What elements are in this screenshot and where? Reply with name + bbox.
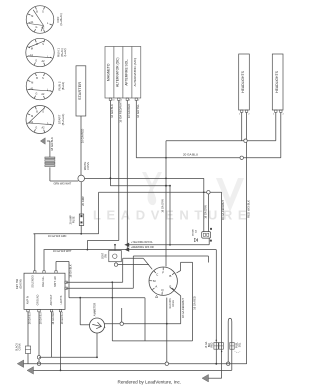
wire run y258 (123, 257, 144, 259)
dot crossing (112, 297, 114, 299)
wire headlight bus upper (166, 140, 276, 142)
decor (93, 172, 252, 223)
svg-text:(G+M+A1): (G+M+A1) (59, 13, 63, 25)
inline connectors right pair (214, 343, 218, 350)
svg-text:SOLENOID: SOLENOID (32, 275, 35, 288)
svg-text:16 GA W/3 WHT: 16 GA W/3 WHT (53, 250, 72, 253)
svg-text:B: B (169, 274, 171, 278)
wire drop x208 (207, 256, 209, 263)
box pins (109, 98, 111, 100)
ammeter needle (92, 322, 101, 328)
svg-text:2: 2 (283, 114, 284, 116)
wire riser x133 (132, 256, 134, 288)
svg-text:CONN: CONN (86, 162, 90, 170)
svg-text:20 AMP: 20 AMP (81, 196, 85, 206)
svg-text:RUN 2: RUN 2 (58, 81, 62, 90)
svg-text:1: 1 (273, 114, 274, 116)
wire headlight2 right (280, 112, 282, 157)
svg-text:LEADVENTURE: LEADVENTURE (93, 208, 252, 223)
wire riser x122 (122, 258, 124, 282)
svg-text:AMMETER: AMMETER (92, 303, 96, 316)
wire coil to fuse junction (49, 167, 51, 181)
wire box bottom 3 (51, 312, 53, 358)
svg-text:18 GA BLK: 18 GA BLK (40, 311, 43, 324)
wire 20 GA BLU (136, 157, 280, 159)
wire box top 2 (43, 250, 45, 271)
ignition switch position OFF (26, 6, 63, 34)
wire ground bus y364 (23, 363, 246, 365)
wire box bottom 1 (27, 312, 29, 346)
svg-text:KEY SW: KEY SW (15, 278, 19, 289)
ignition switch position START (26, 106, 65, 134)
wire ammeter feed (79, 298, 81, 325)
wire run y323 (105, 323, 181, 325)
svg-text:16 GA BLK: 16 GA BLK (29, 311, 32, 324)
wire altdc elbow (87, 240, 118, 242)
wire switch bottom (166, 298, 168, 364)
wire box bottom 4 (60, 312, 62, 371)
wire riser x111 (111, 282, 113, 341)
svg-text:(B+S+A1): (B+S+A1) (61, 114, 65, 126)
headlight box 2 (272, 54, 283, 110)
wire riser x145 (144, 298, 146, 341)
svg-text:M: M (31, 48, 33, 51)
alternator ac box (131, 47, 133, 99)
svg-text:AMP IN: AMP IN (27, 296, 30, 304)
svg-text:16 GA BLK: 16 GA BLK (110, 104, 114, 118)
svg-text:LIGHTS: LIGHTS (60, 295, 63, 304)
svg-text:18 GA RED/WHT: 18 GA RED/WHT (181, 298, 185, 318)
wire bus 166 upper (165, 141, 167, 267)
wire run y249 (44, 249, 217, 251)
key switch connector box (24, 273, 65, 309)
svg-text:16 GA W/3 GRN: 16 GA W/3 GRN (48, 235, 67, 238)
wire x170 drop (169, 186, 171, 245)
diode pack D1 (202, 232, 211, 239)
svg-text:G: G (35, 93, 37, 96)
wire ground y378 (209, 377, 222, 379)
connector right pins (65, 281, 67, 283)
connector top pins (34, 271, 36, 273)
svg-text:RED: RED (211, 342, 213, 347)
ignition switch position RUN 1 (26, 38, 67, 66)
wire bus x216 (215, 250, 217, 364)
seat switch contact (113, 254, 117, 258)
wire afterfire (126, 100, 128, 249)
svg-text:(L+A2): (L+A2) (63, 48, 67, 56)
wire riser x98 (98, 192, 100, 234)
ammeter M1 (90, 318, 105, 333)
wire box n-loop (55, 262, 57, 271)
wire run y339 (112, 340, 192, 342)
headlight box 2 pins (275, 110, 277, 112)
svg-text:M: M (31, 81, 33, 84)
svg-text:2: 2 (248, 114, 249, 116)
ignition switch position RUN 2 (26, 72, 65, 100)
svg-text:DIODE: DIODE (192, 229, 194, 236)
wire bus x221 (221, 192, 223, 378)
svg-text:1: 1 (239, 114, 240, 116)
wire diode out (208, 238, 210, 245)
wire magneto (109, 100, 111, 185)
svg-text:16 GA YEL: 16 GA YEL (136, 104, 140, 118)
wire switch top (165, 266, 167, 268)
svg-text:16 GA RED: 16 GA RED (127, 104, 131, 118)
wire diode legs top (203, 178, 205, 231)
svg-text:(B+A1): (B+A1) (61, 82, 65, 90)
svg-text:16 GA RED: 16 GA RED (193, 296, 197, 310)
key switch marker (155, 295, 157, 297)
wire run y244 (125, 244, 209, 246)
svg-text:16 GA GRN: 16 GA GRN (204, 205, 207, 218)
wire junction to fuse (80, 182, 82, 215)
svg-text:20 GA BLU: 20 GA BLU (183, 152, 198, 156)
wire headlight1 left (241, 112, 243, 140)
junction connector circle (78, 175, 85, 182)
headlight box 1 (239, 54, 250, 110)
svg-text:18 GA BLK: 18 GA BLK (50, 137, 54, 151)
svg-text:16 GA RED: 16 GA RED (81, 129, 85, 143)
svg-text:G: G (35, 60, 37, 63)
wire y297 (69, 297, 145, 299)
svg-text:START: START (58, 115, 62, 125)
wire main run y192 (99, 191, 222, 193)
svg-text:CONN: CONN (19, 343, 22, 350)
svg-text:FUEL: FUEL (237, 341, 239, 348)
seat switch box (109, 251, 122, 262)
svg-text:+YEL/ORG W/3 OL: +YEL/ORG W/3 OL (131, 241, 153, 244)
svg-text:SOL: SOL (240, 342, 242, 347)
coil symbol (45, 157, 55, 167)
svg-text:+: + (104, 326, 106, 330)
svg-text:18 GA BLU: 18 GA BLU (61, 312, 64, 325)
wire diag to switch (143, 258, 152, 269)
svg-text:GROUND: GROUND (37, 294, 40, 305)
arrow on y249 (125, 247, 130, 251)
wire box top 1 (34, 234, 36, 271)
hairpin jumper (228, 318, 232, 370)
svg-text:ALTERNATOR (A/C): ALTERNATOR (A/C) (133, 58, 137, 86)
svg-text:MAG KILL: MAG KILL (42, 275, 45, 287)
wire seat to switch (118, 264, 149, 266)
wire loop over switch (180, 262, 182, 270)
inline connector hairpin (230, 343, 234, 350)
svg-text:AFTERFIRE SOL.: AFTERFIRE SOL. (124, 59, 128, 86)
diode symbol small (194, 238, 197, 242)
key switch terminals (162, 268, 164, 271)
svg-text:STARTER: STARTER (77, 82, 82, 100)
wire switch lower right diag (170, 288, 180, 296)
wire box right y282 (66, 281, 123, 283)
svg-text:AMP OUT: AMP OUT (50, 294, 53, 305)
wire arrow G0 to coil (47, 140, 50, 142)
seat splice (114, 263, 117, 266)
wire ammeter bottom (96, 333, 98, 358)
svg-text:RED W/3 BLK: RED W/3 BLK (246, 200, 250, 218)
ground arrow G0 (40, 138, 45, 144)
wire run y233 (34, 233, 99, 235)
fuse F1 (79, 214, 83, 226)
svg-text:ALTERNATOR (DC): ALTERNATOR (DC) (115, 58, 119, 88)
wire box bottom 2 (38, 312, 40, 364)
svg-text:16 GA GRN: 16 GA GRN (161, 199, 164, 212)
svg-text:16 GA: 16 GA (205, 341, 208, 348)
svg-text:MAGNETO: MAGNETO (107, 63, 111, 81)
seat switch stub down (115, 262, 117, 263)
wire alternator ac (135, 100, 137, 157)
ground arrow G1 (17, 360, 24, 368)
wire alternator dc (118, 100, 120, 240)
svg-text:18 GA: 18 GA (172, 300, 175, 307)
svg-text:A: A (155, 285, 157, 289)
svg-text:+RED/ORG W/3 OR: +RED/ORG W/3 OR (131, 246, 154, 249)
afterfire sol box (122, 47, 124, 99)
svg-text:G: G (35, 26, 37, 29)
svg-text:Rendered by LeadVenture, Inc.: Rendered by LeadVenture, Inc. (118, 379, 182, 384)
svg-text:F: F (162, 270, 164, 274)
svg-text:M: M (31, 115, 33, 118)
seat switch stub up (114, 245, 116, 251)
wire drop x121 (121, 308, 123, 322)
svg-text:OFF: OFF (56, 16, 60, 22)
wire headlight1 right (246, 112, 248, 364)
dashed mark (235, 351, 241, 353)
wire magneto horizontal (110, 185, 170, 187)
svg-text:FUSE: FUSE (72, 216, 76, 223)
wire box bottom 1b (27, 354, 29, 364)
svg-text:(DASH): (DASH) (18, 279, 22, 288)
svg-text:16 GA RED: 16 GA RED (52, 311, 55, 324)
wire ground bus y372 (34, 369, 232, 371)
wire starter to junction (80, 116, 82, 175)
wire starter junction to right (85, 177, 204, 179)
ground arrow G2 (27, 367, 34, 375)
svg-text:G: G (35, 126, 37, 129)
svg-text:HEADLIGHTS: HEADLIGHTS (241, 70, 245, 92)
headlight box 1 pins (241, 110, 243, 112)
magneto box (105, 47, 141, 99)
wire ground bus y357 (39, 356, 97, 358)
wire run y256 (133, 255, 208, 257)
key switch S1 (149, 267, 177, 295)
svg-text:M: M (31, 15, 33, 18)
svg-text:BATT 12V: BATT 12V (54, 276, 57, 287)
alternator dc box (113, 47, 115, 99)
svg-text:HEADLIGHTS: HEADLIGHTS (275, 70, 279, 92)
arrow on y244 (125, 243, 130, 247)
connector bottom pins (27, 309, 29, 311)
svg-text:GRN W/3 WHT: GRN W/3 WHT (54, 182, 72, 186)
svg-text:16 GA RED/WHT: 16 GA RED/WHT (118, 101, 122, 123)
starter box (76, 66, 86, 116)
wire box right y288 (66, 287, 133, 289)
inline connector on wire1 (25, 346, 30, 354)
wire fuse down (80, 225, 82, 234)
svg-text:18 GA BLK: 18 GA BLK (69, 264, 73, 278)
wire headlight2 left (275, 112, 277, 140)
ground arrow G3 (202, 374, 209, 382)
